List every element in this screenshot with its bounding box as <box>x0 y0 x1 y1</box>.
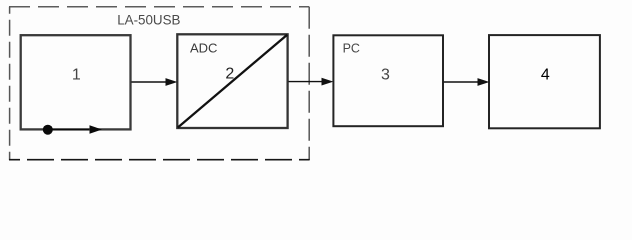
svg-text:1: 1 <box>72 66 81 83</box>
svg-text:PC: PC <box>343 42 360 56</box>
svg-text:LA-50USB: LA-50USB <box>117 13 180 28</box>
svg-text:4: 4 <box>541 66 550 83</box>
svg-text:2: 2 <box>225 66 234 83</box>
svg-text:3: 3 <box>381 66 390 83</box>
svg-text:ADC: ADC <box>190 41 217 56</box>
